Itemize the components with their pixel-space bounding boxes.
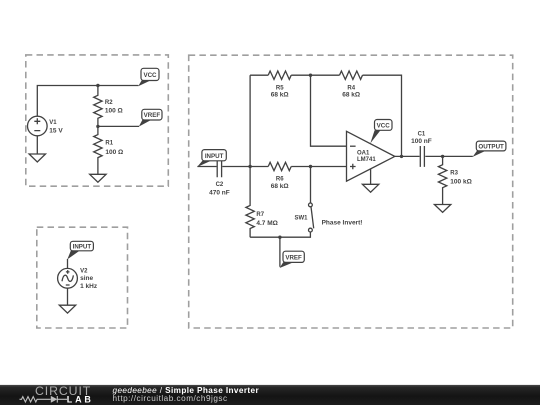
svg-text:LAB: LAB <box>67 394 94 404</box>
svg-text:R5: R5 <box>276 85 284 91</box>
svg-text:15 V: 15 V <box>49 127 63 134</box>
svg-text:100 Ω: 100 Ω <box>105 149 123 156</box>
svg-text:R3: R3 <box>450 171 458 177</box>
svg-text:OUTPUT: OUTPUT <box>478 143 504 150</box>
svg-text:4.7 MΩ: 4.7 MΩ <box>256 220 277 227</box>
svg-text:LM741: LM741 <box>357 157 376 163</box>
svg-text:V2: V2 <box>80 268 88 274</box>
svg-text:68 kΩ: 68 kΩ <box>342 92 360 99</box>
svg-text:V1: V1 <box>49 120 57 126</box>
svg-text:100 nF: 100 nF <box>411 138 432 145</box>
svg-text:VREF: VREF <box>144 112 161 119</box>
svg-text:sine: sine <box>80 275 93 282</box>
svg-text:R1: R1 <box>105 141 113 147</box>
svg-text:100 kΩ: 100 kΩ <box>450 179 471 186</box>
svg-text:SW1: SW1 <box>294 216 308 222</box>
svg-text:OA1: OA1 <box>357 150 370 156</box>
svg-text:R2: R2 <box>105 100 113 106</box>
svg-text:C1: C1 <box>418 131 426 137</box>
svg-text:VREF: VREF <box>285 254 302 261</box>
svg-text:68 kΩ: 68 kΩ <box>271 92 289 99</box>
svg-text:C2: C2 <box>216 182 224 188</box>
svg-text:Phase Invert!: Phase Invert! <box>322 220 363 227</box>
svg-text:VCC: VCC <box>143 72 157 79</box>
svg-text:VCC: VCC <box>377 122 391 129</box>
svg-text:R4: R4 <box>347 85 355 91</box>
svg-text:R6: R6 <box>276 177 284 183</box>
svg-text:R7: R7 <box>256 212 264 218</box>
svg-text:470 nF: 470 nF <box>209 189 230 196</box>
svg-text:INPUT: INPUT <box>73 243 92 250</box>
svg-text:68 kΩ: 68 kΩ <box>271 183 289 190</box>
svg-text:100 Ω: 100 Ω <box>105 107 123 114</box>
svg-text:INPUT: INPUT <box>205 153 224 160</box>
svg-text:1 kHz: 1 kHz <box>80 283 98 290</box>
svg-text:http://circuitlab.com/ch9jgsc: http://circuitlab.com/ch9jgsc <box>113 394 228 403</box>
